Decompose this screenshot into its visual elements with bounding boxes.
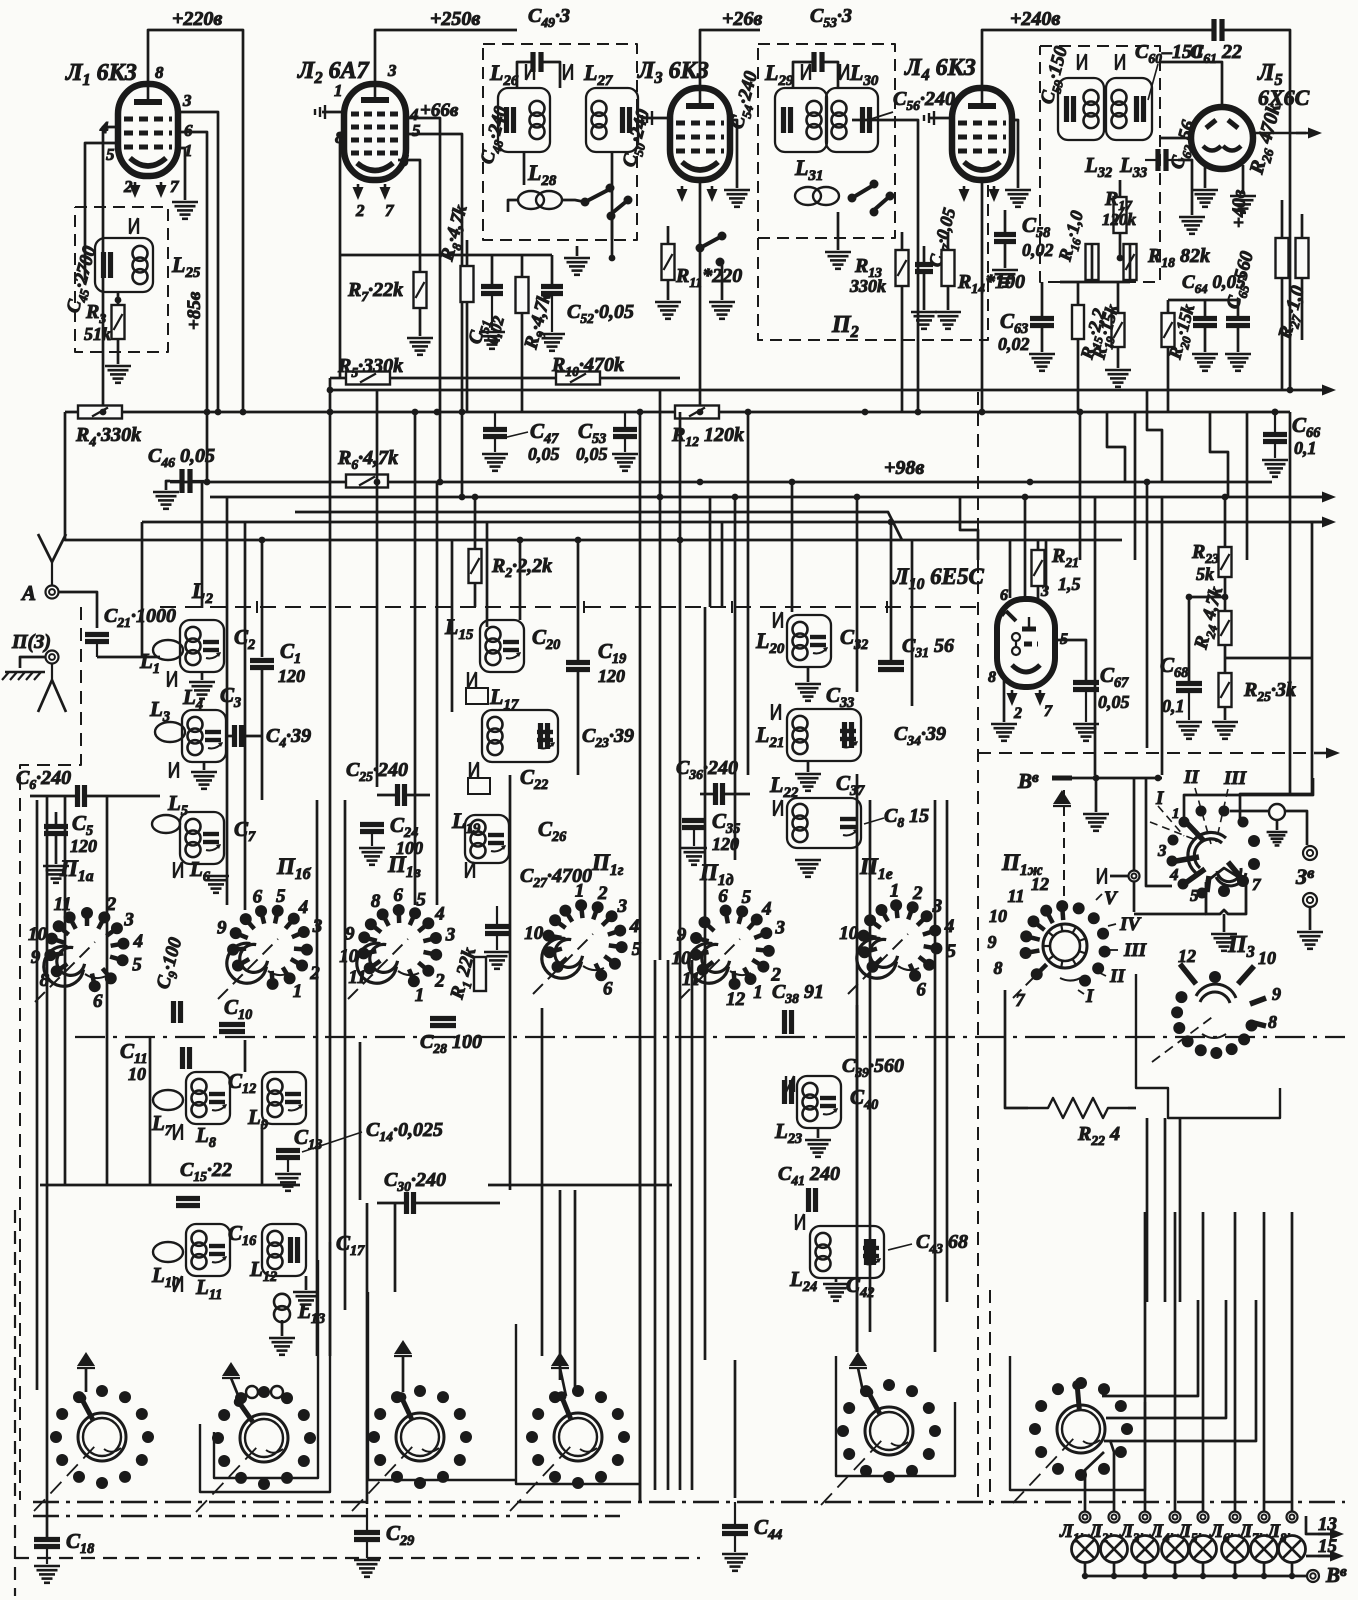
- wire vert x680: [679, 412, 682, 960]
- contact P3u 5: [1197, 888, 1208, 899]
- heater arrows L4: [963, 186, 966, 197]
- wire vert x487: [486, 522, 489, 627]
- terminal lamp 7: [1259, 1512, 1270, 1523]
- wire C52 up: [551, 255, 554, 286]
- wire C60 arrow: [1148, 64, 1158, 100]
- ground 3v: [1297, 931, 1323, 934]
- wire vert x452: [451, 540, 454, 712]
- wire vert x437: [436, 482, 439, 905]
- coil L1: [153, 640, 183, 660]
- svg-text:6: 6: [916, 980, 926, 1001]
- svg-text:120: 120: [598, 666, 625, 686]
- svg-text:6: 6: [1000, 587, 1008, 604]
- svg-text:С52·0,05: С52·0,05: [567, 301, 634, 326]
- wire L20 gnd: [807, 667, 810, 682]
- wire C64: [1204, 300, 1207, 318]
- trimmer mark IF1b: [563, 64, 565, 80]
- terminal PZ: [46, 651, 59, 664]
- wire R14: [947, 232, 950, 250]
- wire L12 gnd: [305, 1276, 308, 1290]
- switch P3u blade 5: [1207, 876, 1209, 892]
- wire L21 gnd: [807, 761, 810, 772]
- ground P3u: [1267, 831, 1288, 834]
- capacitor C5: [44, 824, 68, 829]
- svg-text:0,1: 0,1: [1294, 438, 1317, 458]
- svg-text:4: 4: [629, 916, 640, 937]
- resistor R26: [1276, 238, 1289, 278]
- wire L28 left: [508, 200, 518, 212]
- ground Vv: [1083, 813, 1109, 816]
- svg-text:10: 10: [1258, 948, 1276, 968]
- wire vert x330: [329, 378, 332, 784]
- junction n: [204, 479, 211, 486]
- wire vert x1162: [1161, 497, 1164, 775]
- switch P1zh: [1043, 924, 1087, 968]
- junction p8: [888, 519, 895, 526]
- dash chassis bottom c: [15, 1557, 700, 1559]
- dash pointer P3u II: [1195, 788, 1211, 844]
- svg-text:51k: 51k: [84, 324, 111, 344]
- junction lamp 2: [1111, 1573, 1117, 1579]
- coil L13: [274, 1294, 290, 1310]
- svg-text:С34·39: С34·39: [894, 723, 946, 748]
- bus y540: [142, 539, 1122, 542]
- junction lamp 4: [1172, 1573, 1178, 1579]
- svg-text:4: 4: [1169, 865, 1179, 884]
- svg-text:1: 1: [890, 880, 900, 901]
- terminal 3v a: [1303, 846, 1317, 860]
- wire P3u gnd stem: [1276, 820, 1279, 830]
- wire C56 arrow: [868, 112, 893, 120]
- wire L23 gnd: [817, 1128, 820, 1138]
- wire C53b right: [822, 62, 838, 88]
- wire vert x1025: [1024, 497, 1027, 600]
- svg-text:5: 5: [276, 886, 286, 907]
- svg-text:С4·39: С4·39: [266, 725, 311, 750]
- svg-text:10: 10: [839, 923, 859, 944]
- wire vert x1312: [1240, 522, 1312, 822]
- capacitor C43: [864, 1239, 869, 1265]
- wire C6: [30, 795, 77, 798]
- wire R8 dn: [466, 302, 469, 412]
- svg-text:R10·470k: R10·470k: [551, 354, 624, 379]
- ground C44: [722, 1553, 748, 1556]
- junction k: [979, 409, 986, 416]
- wire vert x935b: [934, 800, 937, 1352]
- svg-text:С21·1000: С21·1000: [104, 605, 176, 630]
- svg-text:10: 10: [989, 906, 1007, 926]
- bus +250 y390: [330, 389, 1322, 392]
- wire switch down: [611, 216, 614, 240]
- bus y512: [295, 512, 902, 540]
- wire socket4 pin: [560, 1368, 566, 1396]
- ground C29: [354, 1559, 380, 1562]
- wire lamp 6 dn: [1234, 1562, 1237, 1576]
- wire pin3 to bus: [178, 112, 218, 412]
- ground C51: [479, 331, 505, 334]
- tuned circuit L19 C26: [465, 815, 509, 863]
- ground C18: [34, 1565, 60, 1568]
- wire C44 up: [734, 1360, 737, 1498]
- wire socket6 lamp1: [1085, 1452, 1104, 1488]
- wire lamp 8 feed: [1291, 1212, 1294, 1511]
- wire C61 right: [1222, 30, 1290, 390]
- wire P3u bottom: [1134, 913, 1206, 916]
- terminal lamp 2: [1109, 1512, 1120, 1523]
- capacitor C31: [878, 660, 904, 665]
- svg-text:R12 120k: R12 120k: [671, 424, 744, 449]
- wire R7 ground: [419, 308, 422, 336]
- wire step a: [1107, 412, 1125, 482]
- trimmer mark L17: [469, 762, 471, 778]
- bus screen y482: [170, 481, 1272, 484]
- wire heater gnd: [339, 132, 342, 378]
- capacitor C53a: [613, 427, 637, 432]
- wire eye pin3 up: [1045, 540, 1048, 592]
- wire C1 down: [261, 668, 264, 800]
- svg-text:9: 9: [988, 932, 997, 952]
- svg-text:5: 5: [412, 121, 421, 140]
- wire vert x857b: [856, 1005, 859, 1352]
- wire vert x330b: [329, 784, 332, 1356]
- wire C46 gnd: [166, 481, 170, 490]
- resistor R3: [112, 305, 125, 339]
- tube V1 6K3: [118, 84, 178, 176]
- switch P3u blade 3: [1176, 857, 1199, 861]
- marker socket5: [849, 1352, 867, 1366]
- trimmer mark blk1: [167, 671, 169, 687]
- svg-text:11: 11: [54, 894, 72, 915]
- wire Vv gnd: [1095, 778, 1098, 800]
- capacitor C64: [1193, 316, 1217, 321]
- switch contacts mid: [696, 244, 705, 253]
- svg-text:9: 9: [345, 924, 355, 945]
- socket gang 5: [865, 1407, 913, 1455]
- svg-text:С30·240: С30·240: [384, 1169, 446, 1194]
- wire eye pin8 gnd: [1003, 676, 1006, 722]
- svg-text:3: 3: [182, 91, 192, 110]
- marker socket1: [77, 1352, 95, 1366]
- wire lamp 4 dn: [1174, 1562, 1177, 1576]
- capacitor C41: [806, 1188, 811, 1212]
- svg-text:8: 8: [988, 669, 996, 686]
- wire C43 arrow: [888, 1244, 912, 1250]
- resistor R4: [78, 406, 122, 419]
- svg-text:0,05: 0,05: [528, 444, 560, 464]
- ground P3u plate: [1211, 933, 1237, 936]
- svg-text:7: 7: [1016, 990, 1026, 1010]
- resistor R23: [1219, 547, 1232, 577]
- lamp L7': [1251, 1536, 1278, 1563]
- switch contacts IF2: [848, 194, 857, 203]
- socket gang 4: [554, 1413, 602, 1461]
- capacitor C57cap: [915, 262, 933, 267]
- tuned circuit L4a C2: [180, 620, 224, 672]
- svg-text:1: 1: [415, 985, 425, 1006]
- ground mid sw: [709, 301, 735, 304]
- junction p17: [575, 537, 582, 544]
- tuned circuit L6 C7: [180, 812, 224, 864]
- switch contact d: [607, 212, 616, 221]
- wire vert x660: [659, 390, 662, 960]
- arrow detector dash: [1314, 752, 1334, 754]
- coil L3: [155, 722, 185, 742]
- wire vert x705: [704, 607, 707, 1360]
- wire C5: [55, 812, 58, 826]
- tuned circuit L9 C13: [262, 1072, 306, 1124]
- wire vert x1180: [1179, 1118, 1182, 1302]
- ground C62: [1179, 216, 1205, 219]
- wire vert x65b: [64, 796, 67, 1185]
- svg-text:1: 1: [575, 880, 585, 901]
- wire R2 dn: [474, 583, 477, 607]
- wire socket3 pin: [402, 1356, 405, 1392]
- wire socket2 pin: [231, 1378, 240, 1400]
- dash pointer P3l: [1152, 1015, 1215, 1062]
- wire lamp 3 feed: [1144, 1212, 1147, 1511]
- ground C27: [484, 951, 510, 954]
- wire block1 gnd: [201, 672, 204, 680]
- wire R13: [901, 232, 904, 250]
- tube V2 6A7: [344, 84, 406, 180]
- junction p13: [1222, 494, 1229, 501]
- trimmer mark blk3: [173, 862, 175, 878]
- wire PZ left: [20, 657, 46, 668]
- wire vert x510: [509, 775, 512, 1190]
- svg-text:II: II: [1109, 966, 1125, 987]
- coil L28: [518, 191, 544, 209]
- wire vert x1165: [1164, 1118, 1167, 1302]
- svg-text:+250в: +250в: [430, 8, 480, 30]
- resistor R19: [1112, 313, 1125, 347]
- ground eye: [991, 723, 1017, 726]
- wire C29 up: [366, 1203, 369, 1504]
- wire lamp 2 dn: [1113, 1562, 1116, 1576]
- lamp L3': [1132, 1536, 1159, 1563]
- bus y497: [210, 496, 1322, 499]
- wire C62 path: [1178, 160, 1192, 215]
- wire vert x735: [734, 497, 737, 860]
- heater arrows L3: [681, 186, 684, 197]
- capacitor C9: [171, 1001, 176, 1023]
- wire V5 top: [1160, 62, 1222, 107]
- junction p6: [434, 409, 441, 416]
- svg-text:2: 2: [597, 883, 608, 904]
- wire vert x317: [316, 800, 319, 1356]
- wire vert x668: [667, 960, 670, 1490]
- wire C49 right: [541, 62, 560, 88]
- heater pin 2 arrow: [134, 182, 137, 193]
- wire eye pin5: [1055, 640, 1086, 680]
- wire vert x37: [36, 800, 39, 1390]
- ground L12: [293, 1291, 319, 1294]
- resistor R14: [942, 250, 955, 286]
- tuned circuit L25: [95, 238, 153, 292]
- junction p10: [732, 494, 739, 501]
- ground IF2: [825, 251, 851, 254]
- svg-text:5: 5: [106, 145, 115, 164]
- wire bottombus left: [40, 1184, 300, 1187]
- tuned circuit L32: [1058, 78, 1104, 140]
- tuned circuit L27: [586, 88, 638, 152]
- svg-text:0,05: 0,05: [1098, 692, 1130, 712]
- junction d: [437, 479, 444, 486]
- wire lamp 8 dn: [1291, 1562, 1294, 1576]
- dash pointer P3u left: [1150, 822, 1196, 840]
- svg-text:С25·240: С25·240: [346, 759, 408, 784]
- trimmer mark L8: [173, 1124, 175, 1140]
- svg-text:+85в: +85в: [184, 291, 205, 330]
- svg-text:П(З): П(З): [11, 631, 51, 653]
- svg-text:6: 6: [184, 121, 193, 140]
- dash chassis bottom a: [33, 1501, 1345, 1503]
- switch P3u blade 4: [1184, 869, 1205, 884]
- junction lamp 8: [1289, 1573, 1295, 1579]
- capacitor C35: [682, 818, 706, 823]
- wire vert x1247: [1246, 412, 1249, 560]
- resistor R22 zigzag: [1028, 1098, 1128, 1118]
- wire vert x227: [226, 497, 229, 905]
- junction R23 R24: [1222, 594, 1229, 601]
- wire C21 to L1: [97, 656, 160, 659]
- resistor R27: [1296, 238, 1309, 278]
- svg-text:330k: 330k: [849, 276, 886, 296]
- svg-text:С6·240: С6·240: [16, 767, 71, 792]
- wire C30: [377, 1202, 406, 1205]
- junction p21: [657, 494, 664, 501]
- trimmer mark IF2a: [801, 64, 803, 80]
- coil L7: [153, 1090, 183, 1110]
- svg-text:6: 6: [93, 991, 103, 1012]
- junction p3: [745, 409, 752, 416]
- switch P3u blade 7: [1228, 862, 1243, 880]
- terminal lamp 6: [1230, 1512, 1241, 1523]
- wire vert x65: [65, 412, 142, 540]
- wire vert x47: [46, 796, 49, 1537]
- wire P3u term right: [1285, 811, 1307, 845]
- svg-text:3: 3: [123, 909, 134, 930]
- junction R3 top: [115, 297, 122, 304]
- svg-text:10: 10: [128, 1064, 146, 1084]
- svg-text:С15·22: С15·22: [180, 1159, 232, 1184]
- ground C64: [1192, 353, 1218, 356]
- wire R17: [1119, 180, 1122, 197]
- wire P3u term left: [1230, 810, 1269, 813]
- trimmer mark L15: [467, 672, 469, 688]
- wire vert x578: [577, 540, 580, 660]
- wire C25: [377, 794, 397, 797]
- heater pin 7 arrow: [160, 182, 163, 193]
- dash tick IV: [1108, 924, 1116, 926]
- svg-text:4: 4: [434, 904, 445, 925]
- junction lamp 6: [1232, 1573, 1238, 1579]
- wire vert x345: [344, 800, 347, 1310]
- tuned circuit L20 C32: [787, 615, 831, 667]
- switch contact a: [581, 198, 590, 207]
- wire anode supply +250v: [375, 30, 517, 84]
- resistor R21: [1032, 550, 1045, 586]
- wire R9 dn: [521, 313, 524, 412]
- wire socket5 pin: [858, 1368, 864, 1396]
- wire vert x692: [691, 960, 694, 1490]
- box socket2 inner: [214, 1260, 318, 1478]
- svg-text:10: 10: [524, 923, 544, 944]
- resistor R13: [896, 250, 909, 286]
- wire pin6 down: [398, 160, 420, 272]
- wire pin1 to ground: [178, 148, 185, 200]
- wire vert x655: [654, 960, 657, 1490]
- svg-text:5: 5: [1190, 886, 1199, 905]
- socket2 spare pins: [246, 1386, 258, 1398]
- wire lamp 4 feed: [1174, 1212, 1177, 1511]
- wire R19: [1117, 282, 1120, 313]
- capacitor C1: [250, 658, 274, 663]
- wire vert x415: [414, 412, 417, 905]
- wire vert x710: [709, 497, 712, 607]
- tuned circuit L29: [775, 88, 827, 152]
- heater arrows L2: [357, 184, 360, 195]
- wire socket1 pin: [85, 1368, 88, 1392]
- box socket3: [368, 1292, 516, 1480]
- svg-text:3: 3: [387, 61, 397, 80]
- dashed gang line: [160, 606, 978, 608]
- svg-text:7: 7: [1044, 703, 1053, 720]
- svg-text:R5·330k: R5·330k: [337, 355, 403, 380]
- trimmer mark L23: [785, 1076, 787, 1092]
- wire mid sw: [721, 262, 724, 300]
- resistor R25: [1219, 673, 1232, 707]
- tube V4 6K3: [952, 88, 1012, 180]
- tuned circuit L11 C16: [186, 1224, 230, 1276]
- tube V3 6K3: [670, 88, 730, 180]
- bus y522: [142, 521, 1322, 524]
- wire C61 left: [1085, 29, 1214, 32]
- resistor R18: [1124, 244, 1137, 280]
- terminal lamp 8: [1287, 1512, 1298, 1523]
- wire R16 R18: [1091, 244, 1094, 280]
- wire vert x377: [376, 390, 379, 787]
- tuned circuit L21: [787, 709, 861, 761]
- switch P1a: [70, 917, 76, 928]
- lamp L4': [1162, 1536, 1189, 1563]
- capacitor C19: [566, 660, 590, 665]
- switch P1e: [896, 905, 897, 918]
- svg-text:+40в: +40в: [1229, 189, 1250, 228]
- junction p20: [677, 537, 684, 544]
- wire L30 out: [852, 120, 918, 412]
- wire vert x722: [721, 522, 724, 607]
- trimmer mark L20: [773, 612, 775, 628]
- wire vert x792: [791, 482, 794, 612]
- capacitor C27: [485, 924, 509, 929]
- wire vert x245: [244, 522, 247, 910]
- tube V10 6E5C: [997, 599, 1055, 687]
- terminal Vv bottom: [1307, 1570, 1319, 1582]
- svg-text:11: 11: [1007, 886, 1024, 906]
- svg-text:6: 6: [718, 886, 728, 907]
- switch P1b: [261, 911, 264, 924]
- resistor R10: [556, 372, 600, 385]
- grid cap mark L4t: [930, 117, 950, 120]
- resistor R12: [675, 406, 719, 419]
- trimmer mark IF3b: [1115, 54, 1117, 70]
- coil L10: [153, 1242, 183, 1262]
- ground V5 a: [1192, 189, 1218, 192]
- resistor R20: [1162, 313, 1175, 347]
- svg-text:С31 56: С31 56: [902, 635, 954, 660]
- svg-text:5k: 5k: [1196, 564, 1214, 584]
- terminal P1zh: [1129, 871, 1140, 882]
